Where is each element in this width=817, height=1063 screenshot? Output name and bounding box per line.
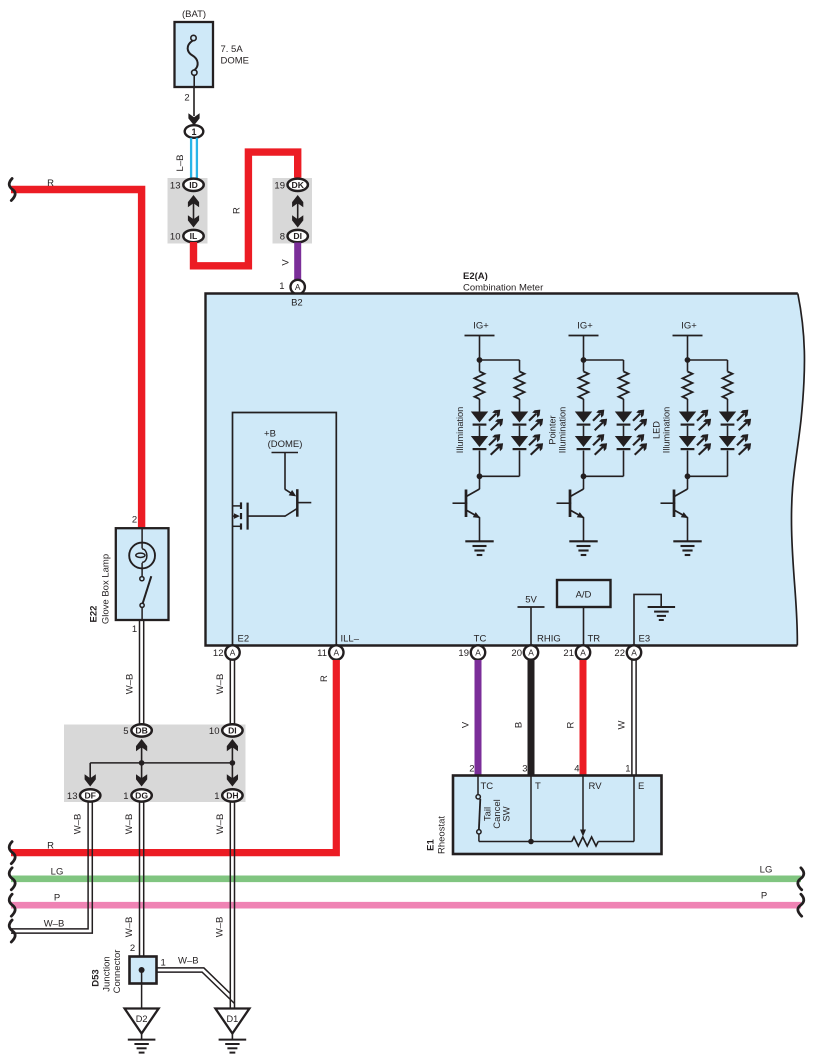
LED D4 right xyxy=(511,426,543,477)
connector pin 10 DI xyxy=(209,724,243,737)
resistor right branch xyxy=(619,360,629,412)
svg-text:5: 5 xyxy=(123,726,128,737)
ground xyxy=(569,541,597,555)
junction node bottom xyxy=(581,473,624,489)
svg-text:L–B: L–B xyxy=(175,155,186,172)
svg-text:W: W xyxy=(616,720,627,729)
svg-text:A: A xyxy=(475,648,481,658)
wire W-B (DH to ground D1) xyxy=(215,802,235,1009)
break symbol (R left) xyxy=(9,179,15,201)
svg-text:W–B: W–B xyxy=(215,814,226,835)
svg-text:19: 19 xyxy=(458,648,469,659)
svg-text:10: 10 xyxy=(170,232,181,243)
junction node top xyxy=(685,357,728,363)
svg-text:B2: B2 xyxy=(291,298,303,309)
5V supply xyxy=(518,595,545,646)
fuse pin 2 label xyxy=(184,93,189,104)
svg-text:RV: RV xyxy=(589,781,603,792)
svg-text:LG: LG xyxy=(51,867,64,878)
svg-text:R: R xyxy=(47,841,54,852)
svg-text:TC: TC xyxy=(481,781,494,792)
svg-text:4: 4 xyxy=(574,764,579,775)
svg-text:R: R xyxy=(47,178,54,189)
svg-text:IG+: IG+ xyxy=(681,321,697,332)
svg-text:P: P xyxy=(761,891,767,902)
connector pin 1 DG xyxy=(123,789,152,802)
wire L-B xyxy=(175,138,197,179)
svg-text:DF: DF xyxy=(84,791,95,801)
lamp bulb xyxy=(129,529,155,577)
svg-text:2: 2 xyxy=(184,93,189,104)
svg-text:T: T xyxy=(535,781,541,792)
mating arrow into DG xyxy=(136,763,147,787)
svg-text:D53: D53 xyxy=(91,969,102,986)
rheostat pin 2 TC xyxy=(469,764,493,793)
ground xyxy=(673,541,701,555)
wire W-B (D53 to D1) xyxy=(157,956,235,1004)
svg-text:(BAT): (BAT) xyxy=(182,9,206,20)
break symbol (R bottom left) xyxy=(9,842,15,864)
svg-text:DI: DI xyxy=(293,231,302,241)
svg-text:Illumination: Illumination xyxy=(558,407,568,453)
LED D2 left xyxy=(679,426,711,477)
svg-text:5V: 5V xyxy=(525,595,537,606)
svg-text:ILL–: ILL– xyxy=(341,634,360,645)
svg-text:13: 13 xyxy=(67,791,78,802)
glove box lamp E22 xyxy=(89,515,169,636)
svg-text:W–B: W–B xyxy=(215,674,226,695)
connector pin 19 DK xyxy=(274,179,307,192)
svg-text:LG: LG xyxy=(760,865,773,876)
pin 19 TC xyxy=(458,634,486,660)
resistor right branch xyxy=(723,360,733,412)
svg-text:3: 3 xyxy=(522,764,527,775)
transistor driver xyxy=(557,489,585,541)
transistor Q1 (PNP) xyxy=(285,453,311,517)
junction node top xyxy=(581,357,624,363)
junction connector block DB/DI/DF/DG/DH xyxy=(64,725,246,803)
mating arrow into DF xyxy=(85,763,96,787)
svg-text:12: 12 xyxy=(213,648,224,659)
LED D1 left xyxy=(471,410,503,431)
LED D1 left xyxy=(679,410,711,431)
svg-text:Combination Meter: Combination Meter xyxy=(463,283,543,294)
break symbols (LG) xyxy=(9,868,804,890)
IG+ supply (Illumination circuit) xyxy=(465,321,495,361)
svg-text:W–B: W–B xyxy=(178,956,199,967)
junction node top xyxy=(477,357,520,363)
ground D1 xyxy=(215,1009,249,1053)
rheostat internal bus xyxy=(479,776,572,845)
svg-text:21: 21 xyxy=(563,648,574,659)
svg-text:Illumination: Illumination xyxy=(662,407,672,453)
svg-text:Connector: Connector xyxy=(112,950,123,994)
internal ground (E3) xyxy=(634,594,675,645)
resistor left branch xyxy=(683,360,693,412)
svg-text:E3: E3 xyxy=(639,634,651,645)
D53 pin 2 label xyxy=(130,943,135,954)
rheostat pin 1 E xyxy=(625,764,644,793)
svg-text:DK: DK xyxy=(291,180,304,190)
wire R (IL to DK) xyxy=(194,152,298,266)
wire W (E3 to rheostat) xyxy=(616,660,636,776)
svg-text:1: 1 xyxy=(161,958,166,969)
svg-text:LED: LED xyxy=(652,421,662,439)
transistor driver xyxy=(661,489,689,541)
LED D3 right xyxy=(511,410,543,431)
svg-text:Rheostat: Rheostat xyxy=(437,816,448,854)
+B (DOME) supply xyxy=(264,429,302,453)
IG+ supply (Pointer circuit) xyxy=(569,321,599,361)
fuse 7.5A DOME xyxy=(175,9,250,88)
wire LG (bus) xyxy=(11,865,801,879)
svg-text:TC: TC xyxy=(474,634,487,645)
svg-text:A/D: A/D xyxy=(576,590,592,601)
rheostat E1 box xyxy=(426,776,662,855)
svg-text:A: A xyxy=(334,648,340,658)
label Illumination xyxy=(455,407,465,453)
wire P (bus) xyxy=(11,891,801,906)
wire V (DI to meter pin B2-1) xyxy=(280,243,297,281)
svg-text:2: 2 xyxy=(469,764,474,775)
ground xyxy=(465,541,493,555)
svg-text:E22: E22 xyxy=(89,606,100,623)
svg-text:Pointer: Pointer xyxy=(548,415,558,444)
svg-text:1: 1 xyxy=(279,281,284,292)
pin 21 TR xyxy=(563,634,600,660)
LED D3 right xyxy=(719,410,751,431)
svg-text:W–B: W–B xyxy=(124,674,135,695)
svg-text:Illumination: Illumination xyxy=(455,407,465,453)
transistor Q2 (MOSFET) xyxy=(233,502,298,529)
svg-text:A: A xyxy=(580,648,586,658)
svg-text:D1: D1 xyxy=(227,1014,239,1024)
junction connector block ID/IL xyxy=(168,178,208,244)
svg-text:TR: TR xyxy=(588,634,601,645)
pin 22 E3 xyxy=(614,634,650,660)
svg-text:IG+: IG+ xyxy=(473,321,489,332)
svg-text:W–B: W–B xyxy=(124,814,135,835)
svg-text:DG: DG xyxy=(135,791,148,801)
svg-text:V: V xyxy=(460,721,471,728)
transistor driver xyxy=(453,489,481,541)
junction node bottom xyxy=(477,473,520,489)
svg-text:2: 2 xyxy=(130,943,135,954)
mating arrow into DI xyxy=(227,739,238,763)
svg-text:D2: D2 xyxy=(136,1014,148,1024)
svg-text:1: 1 xyxy=(191,127,196,137)
svg-text:B: B xyxy=(513,722,524,728)
wire R (TR to rheostat) xyxy=(565,660,583,776)
svg-text:1: 1 xyxy=(123,791,128,802)
svg-text:11: 11 xyxy=(317,648,327,659)
wire V (TC to rheostat) xyxy=(460,660,478,776)
wire W-B (DF to left bus) xyxy=(11,802,92,933)
svg-text:W–B: W–B xyxy=(44,919,65,930)
svg-text:10: 10 xyxy=(209,726,220,737)
pin 20 RHIG xyxy=(511,634,560,660)
svg-text:R: R xyxy=(319,675,330,682)
svg-text:E2(A): E2(A) xyxy=(463,271,488,282)
connector pin 1 DH xyxy=(214,789,242,802)
D53 pin 1 label xyxy=(161,958,166,969)
lamp switch xyxy=(140,576,152,619)
combination meter E2(A) xyxy=(206,271,805,646)
svg-text:W–B: W–B xyxy=(124,917,135,938)
svg-text:W–B: W–B xyxy=(215,917,226,938)
node 1 xyxy=(185,125,204,138)
LED D1 left xyxy=(575,410,607,431)
svg-text:8: 8 xyxy=(280,232,285,243)
svg-text:Junction: Junction xyxy=(102,956,113,991)
junction connector D53 xyxy=(91,950,157,994)
svg-text:2: 2 xyxy=(132,515,137,526)
svg-text:DOME: DOME xyxy=(221,56,250,67)
IG+ supply (LED circuit) xyxy=(673,321,703,361)
svg-text:Glove Box Lamp: Glove Box Lamp xyxy=(101,554,112,624)
svg-text:V: V xyxy=(280,259,291,266)
svg-text:19: 19 xyxy=(274,180,285,191)
connector pin 13 DF xyxy=(67,789,100,802)
svg-text:R: R xyxy=(565,721,576,728)
svg-text:E2: E2 xyxy=(238,634,250,645)
label LED Illumination xyxy=(652,407,672,453)
junction connector block DK/DI xyxy=(273,178,313,244)
svg-text:A: A xyxy=(295,282,301,292)
resistor left branch xyxy=(475,360,485,412)
internal bus wire xyxy=(90,760,235,766)
svg-text:E1: E1 xyxy=(426,838,437,850)
svg-text:ID: ID xyxy=(189,180,198,190)
rheostat pin 4 RV xyxy=(574,764,602,793)
svg-text:1: 1 xyxy=(625,764,630,775)
resistor left branch xyxy=(579,360,589,412)
svg-text:22: 22 xyxy=(614,648,625,659)
rheostat pin 3 T xyxy=(522,764,541,793)
svg-text:IL: IL xyxy=(190,231,198,241)
mating arrows DK-DI xyxy=(292,195,303,228)
resistor right branch xyxy=(515,360,525,412)
LED D4 right xyxy=(615,426,647,477)
mating arrow into DH xyxy=(227,763,238,787)
wire B (RHIG to rheostat) xyxy=(513,660,531,776)
break symbol (W-B left) xyxy=(9,920,15,942)
mating arrows ID-IL xyxy=(188,195,199,228)
wire (D53 to ground D2) xyxy=(141,970,143,1009)
svg-text:DH: DH xyxy=(226,791,238,801)
wire fuse to node 1 xyxy=(188,87,199,126)
wire R (battery feed, left) xyxy=(11,178,142,529)
svg-text:1: 1 xyxy=(214,791,219,802)
connector pin 10 IL xyxy=(170,230,204,243)
wire W-B (DG to D53) xyxy=(124,802,144,957)
A/D converter U1 xyxy=(557,580,611,645)
LED D2 left xyxy=(471,426,503,477)
connector pin 13 ID xyxy=(170,179,204,192)
connector pin 5 DB xyxy=(123,724,152,737)
wire W-B (E2 pin to DI) xyxy=(215,660,235,725)
internal circuit box (dimmer IC) xyxy=(233,413,337,646)
junction node bottom xyxy=(685,473,728,489)
svg-text:A: A xyxy=(631,648,637,658)
svg-text:(DOME): (DOME) xyxy=(268,439,303,450)
svg-text:7. 5A: 7. 5A xyxy=(221,44,244,55)
rheostat element xyxy=(572,776,634,847)
svg-text:W–B: W–B xyxy=(73,814,84,835)
meter pin 1 (B2) xyxy=(279,280,305,294)
svg-text:P: P xyxy=(54,893,60,904)
svg-text:A: A xyxy=(528,648,534,658)
svg-text:SW: SW xyxy=(502,806,513,821)
LED D3 right xyxy=(615,410,647,431)
svg-text:1: 1 xyxy=(132,624,137,635)
svg-text:A: A xyxy=(230,648,236,658)
pin 11 ILL- xyxy=(317,634,360,660)
mating arrow into DB xyxy=(136,739,147,763)
svg-text:E: E xyxy=(638,781,644,792)
break symbols (P) xyxy=(9,894,804,916)
svg-text:RHIG: RHIG xyxy=(537,634,561,645)
svg-text:IG+: IG+ xyxy=(577,321,593,332)
pin 12 E2 xyxy=(213,634,249,660)
svg-text:DB: DB xyxy=(135,726,147,736)
tail cancel switch xyxy=(476,776,513,842)
svg-text:13: 13 xyxy=(170,180,181,191)
wire W-B (lamp to DB) xyxy=(124,620,143,725)
connector pin 8 DI xyxy=(280,230,308,243)
LED D4 right xyxy=(719,426,751,477)
svg-text:+B: +B xyxy=(264,429,276,440)
ground D2 xyxy=(125,1009,159,1053)
wiper arrow xyxy=(580,776,586,837)
svg-text:R: R xyxy=(232,207,243,214)
LED D2 left xyxy=(575,426,607,477)
label Pointer Illumination xyxy=(548,407,568,453)
svg-text:20: 20 xyxy=(511,648,522,659)
wire R (ILL- to bottom bus) xyxy=(11,660,336,853)
svg-text:DI: DI xyxy=(228,726,237,736)
